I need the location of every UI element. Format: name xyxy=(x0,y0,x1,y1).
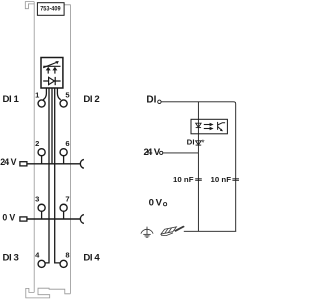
wire from box to 24V rail xyxy=(51,88,53,164)
0V rail hook to adjacent module xyxy=(80,215,84,224)
terminal 6 xyxy=(60,149,67,156)
0V rail xyxy=(27,218,80,220)
svg-text:8: 8 xyxy=(65,251,69,260)
wire to terminal 8 xyxy=(55,88,60,263)
terminal 8 xyxy=(60,260,67,267)
24V rail hook to adjacent module xyxy=(80,159,84,168)
wire to terminal 4 xyxy=(46,88,50,263)
svg-text:5: 5 xyxy=(65,90,70,99)
wire branch down through C1 xyxy=(197,153,199,231)
DIN rail / chassis symbol xyxy=(161,226,185,236)
24V plug symbol xyxy=(20,162,27,166)
svg-text:0: 0 xyxy=(2,212,7,222)
svg-text:24: 24 xyxy=(0,157,9,167)
svg-text:6: 6 xyxy=(65,139,69,148)
LED indicator symbol inside box xyxy=(43,61,60,74)
wire DI branch to optocoupler xyxy=(197,102,199,120)
terminal 5 xyxy=(60,100,67,107)
0V plug symbol xyxy=(20,217,27,221)
svg-text:DI: DI xyxy=(187,138,195,147)
stub terminal 7 xyxy=(63,211,65,219)
stub terminal 6 xyxy=(63,156,65,164)
wire 24V line xyxy=(163,152,199,154)
svg-text:10 nF: 10 nF xyxy=(211,175,232,184)
svg-text:DI: DI xyxy=(146,95,156,106)
svg-text:DI 3: DI 3 xyxy=(3,252,19,263)
module top-right edge xyxy=(64,5,70,294)
svg-text:3: 3 xyxy=(35,194,39,203)
optocoupler LED xyxy=(196,119,201,134)
svg-text:0: 0 xyxy=(149,197,154,208)
svg-text:10 nF: 10 nF xyxy=(173,175,194,184)
svg-text:1: 1 xyxy=(35,90,40,99)
ground bus xyxy=(184,230,236,232)
svg-text:24: 24 xyxy=(144,147,154,158)
wire to terminal 5 xyxy=(57,88,60,100)
component box U1 xyxy=(41,58,63,89)
terminal stubs to rails xyxy=(42,156,64,219)
node 24V xyxy=(144,147,161,158)
terminal 7 xyxy=(60,204,67,211)
optocoupler U2 box xyxy=(191,119,227,134)
stub terminal 2 xyxy=(41,156,43,164)
wires from box to terminals xyxy=(43,88,61,263)
terminal pin numbers xyxy=(35,90,70,259)
stub terminal 3 xyxy=(41,211,43,219)
optocoupler phototransistor xyxy=(218,122,226,131)
diode D1 inside box xyxy=(43,77,60,85)
svg-text:4: 4 xyxy=(35,251,40,260)
svg-text:V: V xyxy=(9,212,15,222)
node 0V xyxy=(149,197,163,208)
svg-text:753-409: 753-409 xyxy=(40,6,61,13)
svg-text:DI 4: DI 4 xyxy=(83,252,100,263)
terminal 4 xyxy=(38,260,45,267)
svg-text:DI 2: DI 2 xyxy=(83,94,99,105)
svg-text:DI 1: DI 1 xyxy=(3,94,20,105)
optocoupler light arrows xyxy=(204,123,214,130)
earth ground symbol xyxy=(141,227,153,238)
24V rail xyxy=(27,163,80,165)
wire to terminal 1 xyxy=(43,88,46,100)
terminal 3 xyxy=(38,204,45,211)
terminal 2 xyxy=(38,149,45,156)
svg-text:V: V xyxy=(156,197,163,208)
svg-text:7: 7 xyxy=(65,194,69,203)
capacitor C1 xyxy=(195,179,202,181)
terminal 1 xyxy=(38,100,45,107)
status LED xyxy=(196,134,206,153)
svg-text:V: V xyxy=(11,157,17,167)
module bottom foot outline xyxy=(26,288,71,298)
wire DI line xyxy=(161,102,236,232)
capacitor C2 xyxy=(232,179,239,181)
label box 753-409 xyxy=(37,3,64,16)
module outline left edge xyxy=(25,2,70,298)
svg-text:2: 2 xyxy=(35,139,39,148)
svg-text:*: * xyxy=(201,137,205,147)
module top-left latch tab xyxy=(25,2,34,9)
channel labels xyxy=(0,94,100,263)
